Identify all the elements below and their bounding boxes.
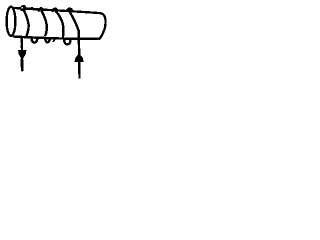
current arrowhead pointing up on right lead <box>74 54 83 63</box>
winding turn 2 bottom hook <box>45 39 50 42</box>
current arrowhead pointing down on left lead <box>18 50 26 60</box>
wire top edge of cylinder <box>14 8 102 13</box>
winding turn 1 bottom hook <box>31 38 37 43</box>
winding turn 2 front diagonal <box>42 11 47 35</box>
small wire tick on top edge <box>30 7 32 9</box>
wire right rounded end of cylinder <box>100 13 106 39</box>
left lead wire upper segment <box>21 38 24 50</box>
winding turn 1 top knot <box>20 5 26 11</box>
left lead wire lower segment <box>21 60 24 71</box>
winding turn 1 knot highlight <box>21 7 23 9</box>
winding turn 4 bottom hook <box>64 39 70 45</box>
winding turn 4 top arc <box>67 8 72 10</box>
left lead wire bead 1 <box>20 41 22 43</box>
solenoid sketch <box>0 0 112 84</box>
right lead wire lower segment <box>78 62 81 78</box>
winding turn 2 top arc <box>39 8 43 10</box>
winding turn 1 front diagonal <box>24 11 29 36</box>
right lead wire upper segment <box>77 30 80 54</box>
winding turn 4 front diagonal <box>69 11 78 30</box>
left lead wire bead 2 <box>20 45 22 47</box>
winding turn 3 top arc <box>53 9 57 11</box>
winding turn 3 front diagonal <box>56 11 64 37</box>
winding turn 3 bottom stub <box>53 38 55 41</box>
left end-cap ellipse of coil <box>7 7 16 36</box>
wire bottom edge of cylinder <box>14 37 100 39</box>
